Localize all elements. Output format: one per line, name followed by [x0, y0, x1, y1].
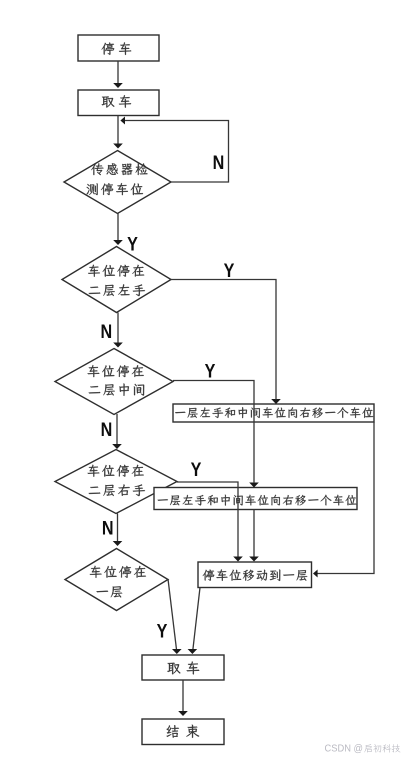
svg-text:Y: Y	[157, 620, 168, 642]
svg-text:N: N	[101, 419, 113, 441]
svg-text:Y: Y	[127, 233, 138, 255]
svg-text:Y: Y	[224, 260, 235, 282]
svg-text:N: N	[102, 517, 114, 539]
svg-text:CSDN @: CSDN @	[325, 744, 364, 755]
svg-text:N: N	[213, 152, 225, 174]
svg-text:N: N	[100, 321, 112, 343]
svg-text:Y: Y	[191, 459, 202, 481]
svg-text:Y: Y	[205, 360, 216, 382]
